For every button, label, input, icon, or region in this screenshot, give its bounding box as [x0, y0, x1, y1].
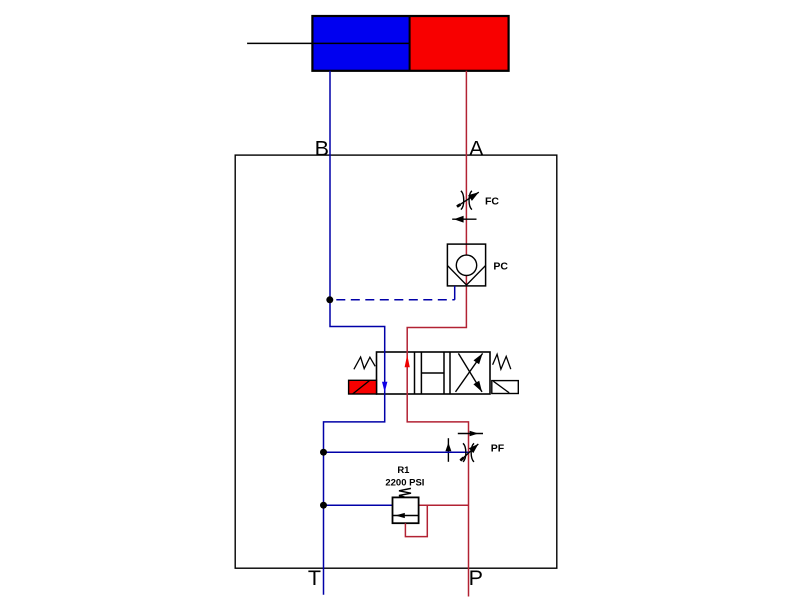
cylinder rod [247, 42, 410, 44]
pilot line stub blue [454, 286, 456, 300]
wire B blue: cylinder to valve to tank line [324, 71, 385, 595]
valve DV1 right spring [493, 354, 511, 369]
flow control FC free flow arrow line [452, 218, 476, 220]
relief R1 flow arrowhead [395, 513, 405, 518]
priority flow PF arc right [471, 443, 474, 462]
pilot check PC seat right [467, 266, 486, 286]
valve DV1 body [377, 352, 491, 394]
valve DV1 flow arrow red up [405, 355, 410, 368]
junction dot T line upper [320, 449, 327, 456]
wire blue tank to PF [324, 451, 469, 453]
priority flow PF arc left [463, 443, 466, 462]
valve DV1 divider 3 [443, 352, 445, 394]
flow control FC free flow arrowhead [454, 216, 464, 223]
svg-text:FC: FC [485, 196, 499, 208]
svg-text:PC: PC [493, 261, 508, 273]
flow control FC adjust arrow tail [457, 204, 460, 206]
flow control FC arc right [469, 191, 472, 210]
relief R1 box [393, 497, 419, 523]
svg-text:T: T [308, 566, 321, 590]
svg-text:2200 PSI: 2200 PSI [385, 478, 424, 489]
svg-text:P: P [469, 566, 483, 590]
valve DV1 left spring [354, 357, 375, 369]
valve DV1 crossed-flow arrowhead 1 [474, 353, 483, 364]
junction dot on B line [326, 296, 333, 303]
priority flow PF up arrow line [447, 438, 449, 462]
pilot check PC box [447, 244, 485, 286]
svg-text:R1: R1 [397, 465, 410, 476]
priority flow PF adjust arrow tail [460, 458, 463, 461]
svg-text:B: B [315, 137, 329, 161]
valve DV1 divider 4 [449, 352, 451, 394]
priority flow PF right arrowhead [470, 431, 479, 436]
pilot check PC ball [456, 255, 476, 275]
priority flow PF adjust arrowhead [469, 444, 479, 453]
flow control FC adjust arrowhead [468, 192, 479, 201]
svg-text:A: A [469, 137, 484, 161]
relief R1 inner line [393, 515, 419, 517]
flow control FC arc left [461, 191, 464, 210]
priority flow PF right arrow line [458, 433, 483, 435]
flow control FC adjust arrow [457, 192, 479, 206]
manifold boundary [235, 155, 557, 568]
cylinder CYL1 body red rod side [410, 16, 509, 71]
valve DV1 right solenoid [492, 381, 519, 394]
valve DV1 divider 2 [420, 352, 422, 394]
cylinder CYL1 outline [312, 16, 508, 71]
wire blue tank to relief [324, 504, 393, 506]
valve DV1 right solenoid diagonal [493, 381, 509, 393]
relief R1 pilot loop red [405, 505, 427, 536]
priority flow PF up arrowhead [445, 443, 451, 452]
junction dot T line lower [320, 502, 327, 509]
wire red relief to P [419, 504, 469, 506]
wire A red: cylinder through FC and PC to valve, then to P line [407, 71, 468, 597]
valve DV1 center H crossbar [421, 372, 444, 374]
valve DV1 left solenoid diagonal [353, 380, 370, 394]
priority flow PF adjust arrow [460, 444, 478, 461]
svg-text:PF: PF [491, 443, 505, 455]
pilot check PC seat left [447, 266, 466, 286]
valve DV1 divider 1 [414, 352, 416, 394]
valve DV1 crossed-flow arrowhead 2 [473, 381, 482, 392]
relief R1 spring [399, 488, 411, 497]
valve DV1 left solenoid energized [349, 380, 377, 394]
cylinder piston [409, 16, 411, 71]
valve DV1 crossed-flow diagonal 1 [456, 353, 483, 392]
cylinder CYL1 body blue cap side [312, 16, 409, 71]
valve DV1 crossed-flow diagonal 2 [458, 353, 482, 392]
pilot line dashed [330, 299, 455, 301]
valve DV1 flow arrow blue down [382, 382, 387, 393]
